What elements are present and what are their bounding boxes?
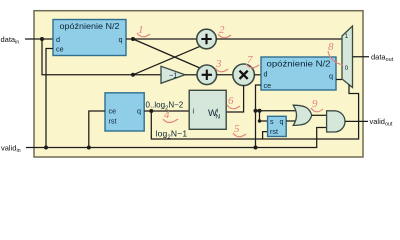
wire diagonal lower-to-adder1 [133,46,200,74]
junction q split [131,37,135,41]
svg-text:rst: rst [270,127,278,136]
ROM W twiddle factors [189,90,226,129]
adder A1 [197,29,217,49]
svg-text:opóźnienie N/2: opóźnienie N/2 [60,22,121,31]
annotation 9 [311,98,323,112]
svg-text:8: 8 [328,41,334,53]
svg-text:4: 4 [164,109,170,121]
node valid_out [370,117,393,128]
node valid_in [1,144,21,155]
svg-text:5: 5 [234,123,240,135]
wire to SR s input [260,111,268,121]
wire AND to valid_out [345,120,368,122]
junction counter q split [149,109,153,113]
wire valid up to delay2 ce [256,85,262,148]
node data_out [371,53,394,64]
mux X1 [342,26,353,88]
svg-text:q: q [280,117,284,126]
junction to SR s [258,109,262,113]
svg-text:d: d [264,70,268,79]
wire inverter to adder2 [185,74,197,76]
wire mux out to data_out [353,56,370,58]
svg-text:1: 1 [138,24,144,36]
wire delay2 q to mux input 0 [336,79,342,81]
annotation 3 [215,58,228,72]
svg-text:2: 2 [219,24,225,36]
svg-text:q: q [329,72,333,81]
svg-text:−1: −1 [169,71,177,80]
wire valid_in bus [26,128,327,148]
annotation 2 [218,24,231,38]
wire diagonal q-to-adder2 [133,39,200,68]
svg-text:q: q [137,107,141,116]
svg-text:6: 6 [228,95,234,107]
annotation 4 [163,109,178,123]
junction data_in split [40,37,44,41]
svg-text:q: q [119,35,123,44]
svg-text:ce: ce [56,45,64,54]
svg-text:ce: ce [264,81,272,90]
wire adder1 to mux input 1 [216,38,342,40]
delay U2 opóźnienie N/2 [261,57,336,90]
net log2N-1 wire [151,85,358,140]
svg-text:7: 7 [247,54,253,66]
adder A2 [197,65,217,85]
junction at SR s corner [258,119,261,122]
node data_in [1,35,20,46]
annotation 8 [328,41,343,65]
wire FF q to OR gate [286,120,299,122]
multiplier M1 [233,64,255,86]
annotation 7 [246,54,259,68]
wire delay1 ce branch [46,49,53,148]
wire valid to OR gate [256,110,300,112]
wire data_in to delay1 d [25,38,53,40]
junction valid to counter ce [87,146,91,150]
svg-text:3: 3 [215,58,222,70]
svg-text:s: s [270,117,274,126]
node B junction on lower data wire [131,73,135,77]
wire delay1 q to adder1 [126,38,197,40]
svg-text:0: 0 [345,65,349,72]
wire data_in down branch [42,39,161,75]
svg-text:9: 9 [312,98,318,110]
svg-text:rst: rst [109,117,117,126]
svg-text:opóźnienie N/2: opóźnienie N/2 [267,60,332,69]
svg-text:ce: ce [109,107,117,116]
counter C1 [105,93,144,131]
delay U1 opóźnienie N/2 [53,20,126,56]
inverter G1 gain -1 [161,66,185,83]
annotation 1 [137,24,150,37]
annotation 5 [233,123,246,137]
annotation 6 [227,95,240,109]
wire twiddle W to multiplier [226,86,243,112]
wire counter q bus [144,110,189,112]
junction valid to OR [254,109,258,113]
wire multiplier to delay2 d [254,74,261,76]
svg-text:1: 1 [345,33,349,40]
wire log2N-1 to SR rst [263,132,268,139]
wire adder2 to multiplier [217,74,233,76]
OR gate G2 [293,105,312,125]
junction valid to delay2 ce [254,146,258,150]
AND gate G3 [327,111,345,132]
junction valid to delay1 ce [44,146,48,150]
flip-flop FF1 s q rst [268,116,287,136]
wire OR to AND [312,114,327,116]
wire counter ce input [89,111,105,148]
svg-text:d: d [56,35,60,44]
